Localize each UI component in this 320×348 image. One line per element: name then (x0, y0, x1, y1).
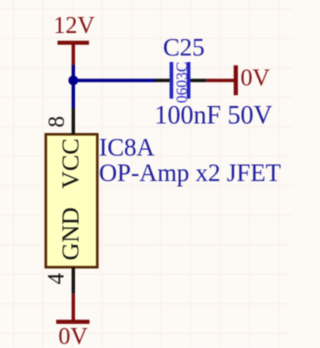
svg-text:GND: GND (57, 207, 84, 260)
svg-text:4: 4 (44, 272, 69, 284)
svg-text:VCC: VCC (57, 138, 84, 188)
svg-text:IC8A: IC8A (99, 135, 155, 162)
power port 0V bottom (56, 294, 89, 322)
svg-text:100nF 50V: 100nF 50V (155, 101, 273, 130)
svg-text:C25: C25 (163, 35, 205, 62)
power port 12V (58, 43, 90, 65)
junction (68, 76, 78, 86)
pin 4 (72, 267, 75, 294)
svg-text:0603C: 0603C (174, 62, 191, 103)
pin 8 (72, 108, 75, 134)
capacitor C25 (155, 62, 206, 99)
svg-text:8: 8 (44, 116, 69, 128)
power port 0V right (206, 65, 236, 95)
svg-text:0V: 0V (58, 324, 88, 348)
op-amp IC8A power part body (46, 134, 98, 267)
svg-text:0V: 0V (241, 65, 271, 91)
svg-text:12V: 12V (53, 13, 95, 39)
wire from 12V port to pin 8 (72, 65, 75, 108)
wire from junction to capacitor C25 (73, 79, 155, 82)
svg-text:OP-Amp x2 JFET: OP-Amp x2 JFET (99, 160, 281, 187)
